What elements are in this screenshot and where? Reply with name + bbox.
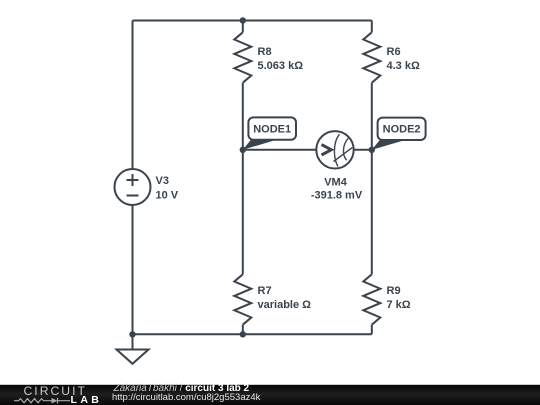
voltmeter chevron: [322, 145, 332, 155]
voltmeter VM4 circle: [316, 131, 353, 168]
resistor R8 body: [234, 32, 251, 82]
junction dot bottom middle: [240, 331, 246, 337]
junction dot NODE2: [369, 147, 375, 153]
CircuitLab logo diode: [52, 398, 58, 404]
wire NODE1 to voltmeter: [243, 149, 316, 151]
wire voltmeter to NODE2: [354, 149, 372, 151]
wire R6 to NODE2: [371, 83, 373, 150]
svg-text:10 V: 10 V: [156, 190, 179, 202]
svg-text:V3: V3: [156, 175, 169, 187]
wire middle rail upper lead: [242, 21, 244, 33]
node label NODE1 box: [248, 117, 296, 139]
CircuitLab logo resistor squiggle: [14, 399, 52, 403]
wire top rail: [133, 20, 372, 22]
wire NODE1 to R7: [242, 150, 244, 274]
svg-text:-391.8 mV: -391.8 mV: [311, 190, 363, 202]
voltmeter needle: [334, 148, 353, 162]
wire R9 lower lead: [371, 325, 373, 335]
junction dot ground: [129, 331, 135, 337]
CircuitLab logo diode bar and lead: [58, 398, 71, 404]
svg-text:5.063 kΩ: 5.063 kΩ: [258, 60, 304, 72]
wire left rail lower (V3 to bottom): [132, 205, 134, 334]
voltage source V3 circle: [115, 169, 151, 205]
svg-text:R7: R7: [258, 285, 272, 297]
junction dot top: [240, 17, 246, 23]
svg-text:http://circuitlab.com/cu8j2g55: http://circuitlab.com/cu8j2g553az4k: [112, 392, 261, 403]
svg-text:NODE2: NODE2: [383, 124, 421, 136]
svg-text:R8: R8: [258, 46, 272, 58]
voltmeter left arc: [334, 134, 339, 166]
ground symbol triangle: [117, 350, 149, 364]
wire NODE2 to R9: [371, 150, 373, 274]
svg-text:NODE1: NODE1: [253, 123, 291, 135]
footer bar: [0, 385, 540, 405]
node label NODE1 pointer wedge: [243, 140, 277, 150]
node label NODE2 box: [378, 118, 426, 140]
wire R8 to NODE1: [242, 83, 244, 150]
wire R7 lower lead: [242, 325, 244, 335]
junction dot NODE1: [240, 147, 246, 153]
V3 plus sign: [127, 174, 139, 186]
resistor R9 body: [363, 274, 380, 324]
wire left rail upper (to V3): [132, 21, 134, 169]
resistor R6 body: [363, 32, 380, 82]
svg-text:R6: R6: [387, 46, 401, 58]
resistor R7 body: [234, 274, 251, 324]
svg-text:4.3 kΩ: 4.3 kΩ: [387, 60, 420, 72]
svg-text:7 kΩ: 7 kΩ: [387, 299, 411, 311]
node label NODE2 pointer wedge: [372, 140, 406, 150]
svg-text:LAB: LAB: [71, 394, 103, 405]
svg-text:R9: R9: [387, 285, 401, 297]
svg-text:variable Ω: variable Ω: [258, 299, 312, 311]
svg-text:VM4: VM4: [324, 177, 348, 189]
wire ground stub: [132, 334, 134, 349]
voltmeter right arc: [343, 138, 348, 160]
wire right rail upper lead: [371, 21, 373, 33]
V3 minus sign: [127, 195, 139, 197]
wire bottom rail: [133, 333, 372, 335]
